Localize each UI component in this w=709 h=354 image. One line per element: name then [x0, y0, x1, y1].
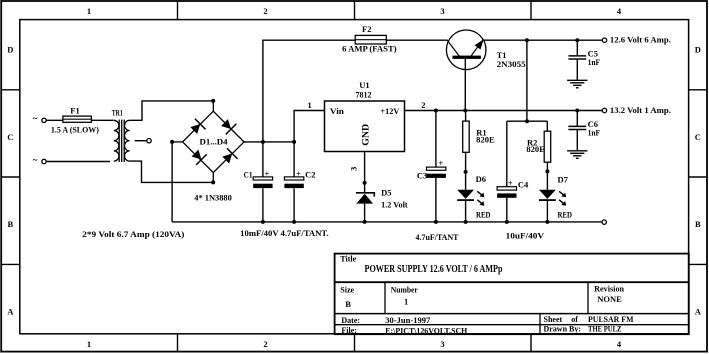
svg-text:C: C: [695, 132, 701, 142]
svg-text:GND: GND: [361, 124, 371, 146]
svg-text:2*9 Volt 6.7 Amp (120VA): 2*9 Volt 6.7 Amp (120VA): [82, 229, 184, 239]
svg-text:E:\PICT\126VOLT.SCH: E:\PICT\126VOLT.SCH: [385, 326, 467, 336]
svg-text:Sheet: Sheet: [544, 315, 563, 324]
svg-text:13.2 Volt 1 Amp.: 13.2 Volt 1 Amp.: [610, 105, 671, 115]
svg-text:+12V: +12V: [380, 106, 400, 116]
svg-text:A: A: [695, 307, 702, 317]
svg-text:1: 1: [87, 339, 91, 349]
svg-text:Number: Number: [391, 286, 418, 295]
svg-text:4* 1N3880: 4* 1N3880: [194, 193, 232, 203]
svg-text:1: 1: [87, 6, 91, 16]
svg-text:Drawn By:: Drawn By:: [544, 325, 582, 334]
svg-text:D6: D6: [476, 174, 486, 184]
svg-text:~: ~: [33, 155, 38, 165]
svg-text:1: 1: [308, 100, 312, 110]
svg-text:Size: Size: [340, 286, 354, 295]
svg-text:2N3055: 2N3055: [497, 59, 526, 69]
svg-text:C1: C1: [244, 170, 253, 180]
svg-text:B: B: [695, 219, 701, 229]
svg-text:Title: Title: [340, 255, 356, 264]
svg-text:THE PULZ: THE PULZ: [588, 324, 622, 334]
svg-text:POWER SUPPLY 12.6 VOLT / 6 AMP: POWER SUPPLY 12.6 VOLT / 6 AMPp: [365, 264, 503, 275]
svg-text:of: of: [571, 315, 578, 324]
svg-text:D: D: [7, 45, 13, 55]
svg-text:+: +: [296, 169, 301, 178]
svg-text:D7: D7: [558, 174, 569, 184]
svg-text:RED: RED: [476, 209, 491, 219]
svg-text:12.6 Volt 6 Amp.: 12.6 Volt 6 Amp.: [610, 35, 671, 45]
svg-text:D: D: [695, 45, 701, 55]
svg-text:D5: D5: [381, 187, 391, 197]
svg-text:1nF: 1nF: [588, 57, 601, 67]
svg-text:A: A: [7, 307, 14, 317]
svg-text:TR1: TR1: [112, 108, 123, 118]
svg-text:2: 2: [263, 6, 267, 16]
svg-text:+: +: [508, 179, 513, 188]
svg-text:C4: C4: [518, 179, 529, 189]
svg-text:6 AMP (FAST): 6 AMP (FAST): [342, 43, 397, 53]
svg-text:C3: C3: [417, 170, 427, 180]
svg-text:+: +: [265, 169, 270, 178]
svg-text:F1: F1: [70, 105, 79, 115]
svg-text:3: 3: [348, 167, 358, 171]
svg-text:3: 3: [440, 6, 444, 16]
svg-text:30-Jun-1997: 30-Jun-1997: [385, 315, 431, 325]
svg-text:Vin: Vin: [330, 106, 344, 116]
svg-text:10mF/40V 4.7uF/TANT.: 10mF/40V 4.7uF/TANT.: [240, 228, 328, 238]
svg-text:7812: 7812: [356, 89, 372, 99]
svg-text:NONE: NONE: [597, 294, 622, 304]
svg-text:2: 2: [263, 339, 267, 349]
svg-text:1: 1: [404, 297, 408, 307]
svg-text:2: 2: [421, 100, 425, 110]
svg-text:4.7uF/TANT: 4.7uF/TANT: [416, 232, 459, 242]
svg-text:1nF: 1nF: [588, 127, 601, 137]
svg-text:~: ~: [33, 114, 38, 124]
svg-text:3: 3: [440, 339, 444, 349]
svg-text:+: +: [439, 159, 444, 168]
svg-text:1.2 Volt: 1.2 Volt: [381, 200, 408, 210]
svg-text:B: B: [7, 219, 13, 229]
svg-text:1.5 A (SLOW): 1.5 A (SLOW): [51, 125, 99, 135]
svg-text:10uF/40V: 10uF/40V: [506, 231, 545, 241]
svg-text:820E: 820E: [476, 135, 495, 145]
svg-text:PULSAR FM: PULSAR FM: [588, 314, 634, 324]
svg-text:F2: F2: [362, 24, 371, 34]
svg-text:820E: 820E: [526, 144, 545, 154]
svg-text:C: C: [7, 132, 13, 142]
svg-text:C2: C2: [305, 170, 315, 180]
svg-text:RED: RED: [558, 209, 573, 219]
svg-text:Date:: Date:: [341, 316, 360, 325]
svg-text:D1...D4: D1...D4: [200, 137, 229, 147]
svg-text:File:: File:: [341, 326, 357, 335]
svg-text:Revision: Revision: [594, 285, 625, 294]
svg-text:B: B: [345, 299, 351, 309]
